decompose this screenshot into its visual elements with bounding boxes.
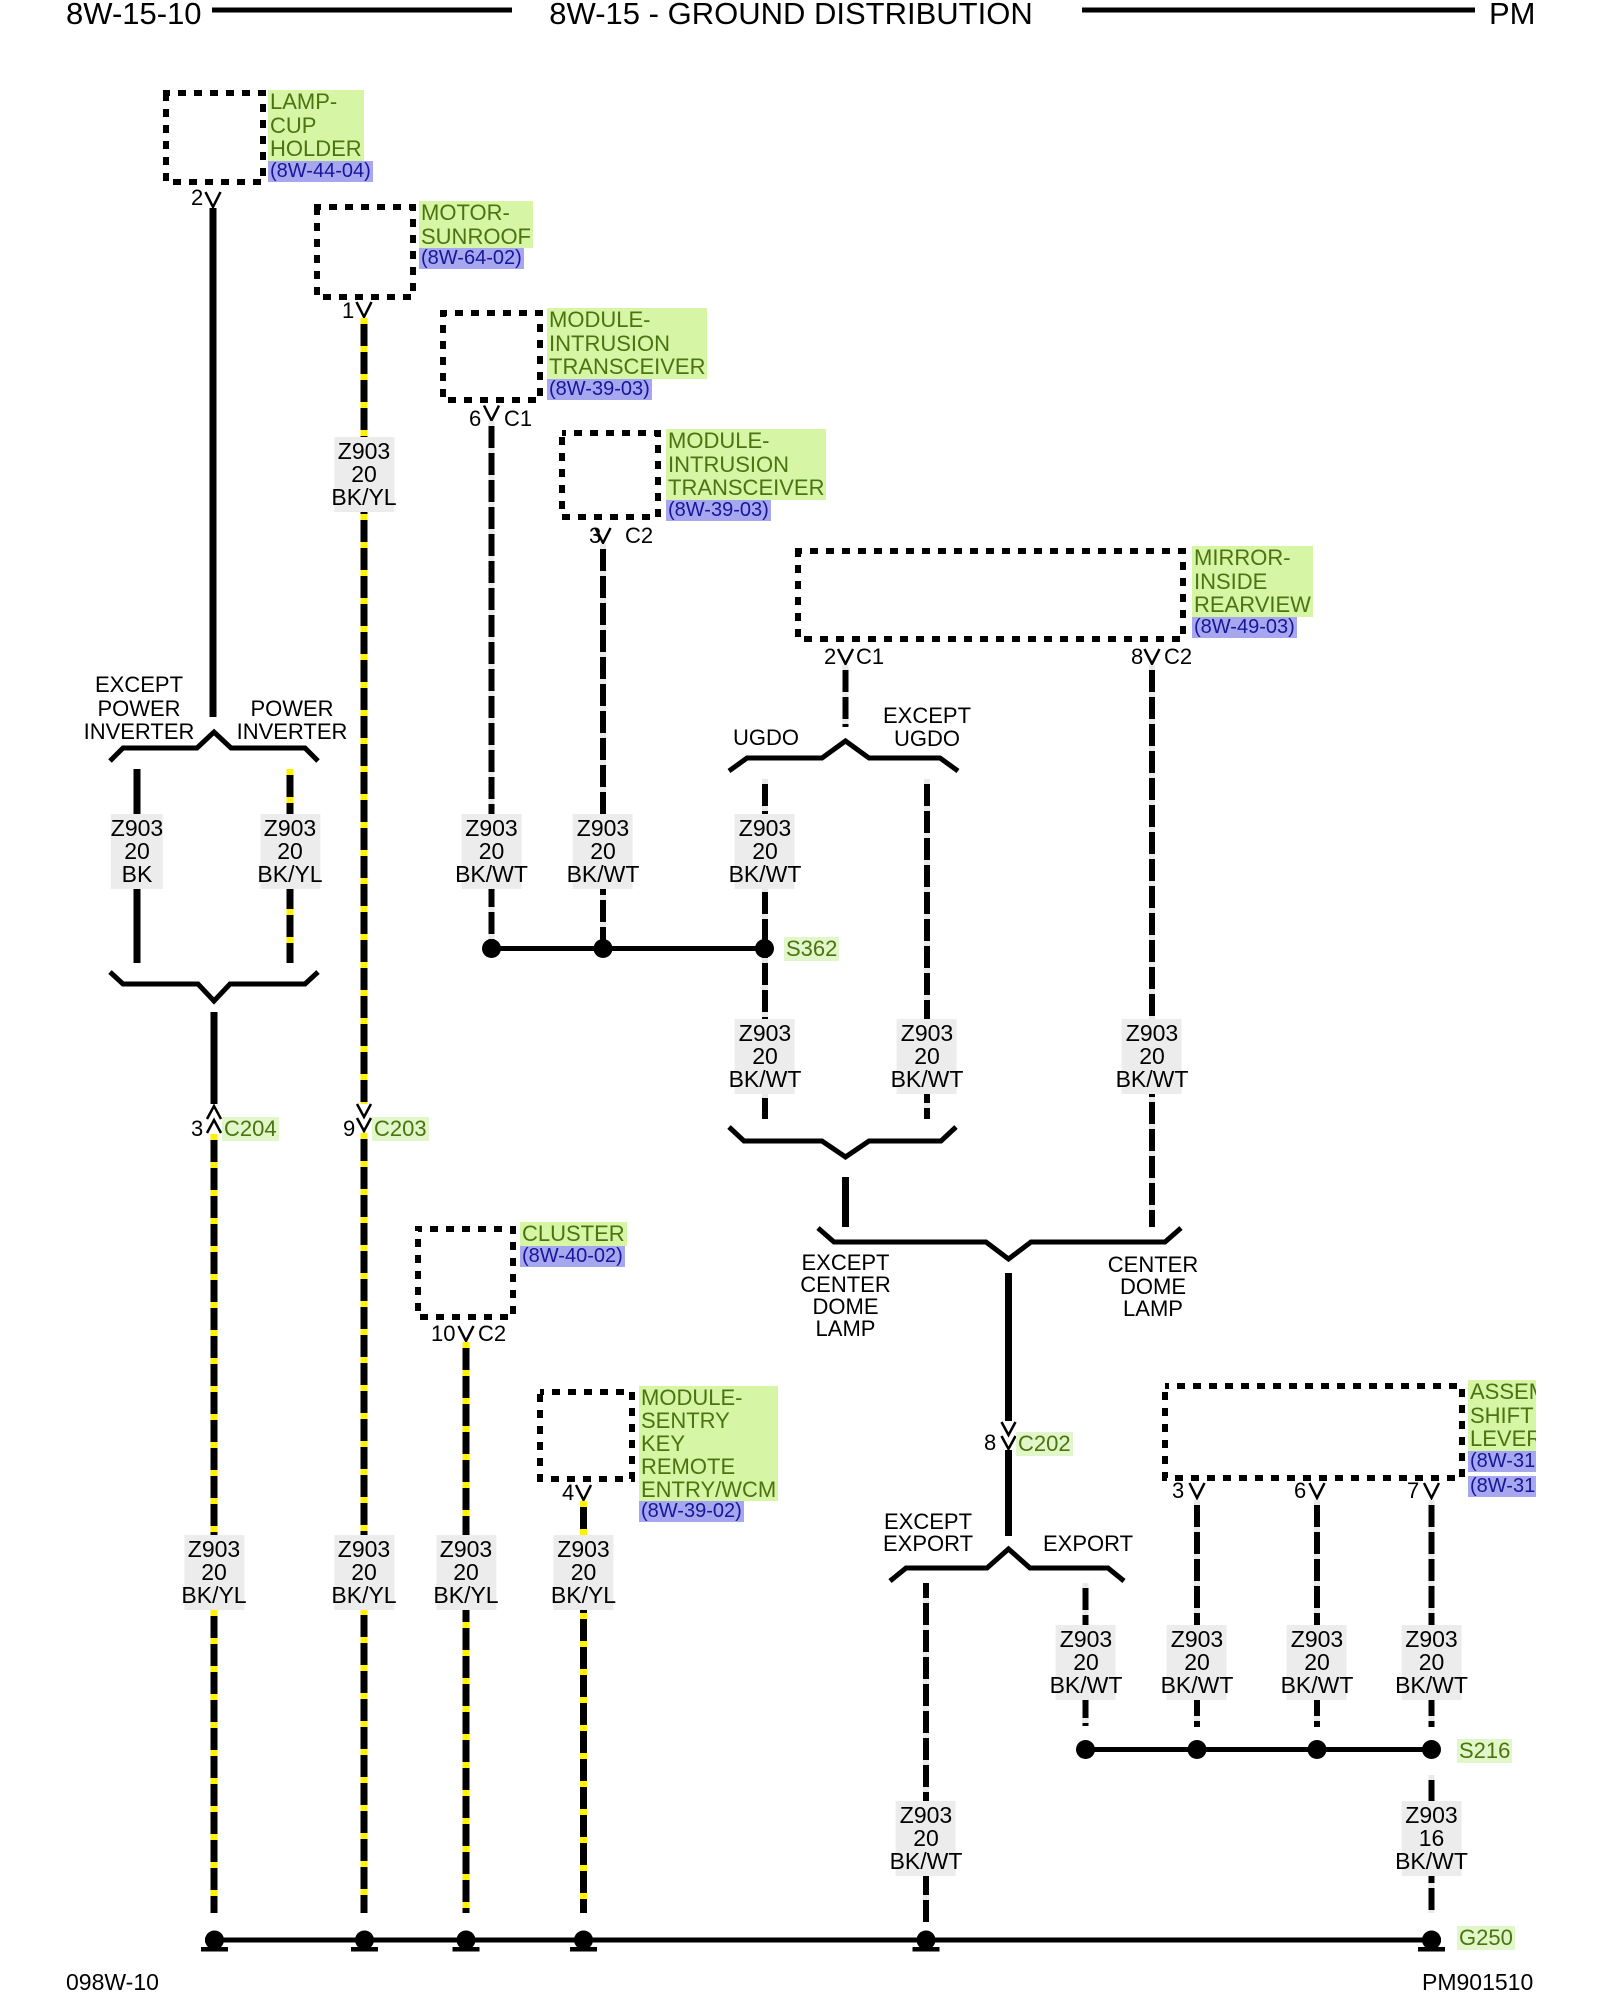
- connector box: motor-sunroof: [317, 207, 413, 297]
- header rule right: [1082, 8, 1475, 13]
- junction dot S216 pin6: [1308, 1740, 1327, 1759]
- wire label Z903 20 BK/WT row5 d: [1395, 1625, 1468, 1700]
- connector box: module-sentry key remote entry/wcm: [540, 1392, 632, 1479]
- pin number 9 at C203: [343, 1118, 355, 1140]
- connector label C204: [222, 1117, 279, 1141]
- wire Z903 20 BK/YL below C203 to G250: [361, 1133, 368, 1913]
- wire BK/WT mirror pin 8 down to dome-lamp merge: [1149, 665, 1155, 1227]
- junction dot S362 left: [482, 939, 501, 958]
- ground label G250: [1457, 1926, 1515, 1950]
- header rule left: [212, 8, 512, 13]
- connector box: cluster: [418, 1229, 513, 1317]
- pin number 2 (lamp): [191, 187, 203, 209]
- connector box: module-intrusion transceiver C2: [562, 433, 658, 517]
- text UGDO: [733, 727, 799, 749]
- wire label Z903 20 BK/YL row4 b: [331, 1535, 396, 1610]
- wire Z903 BK from lamp pin 2: [210, 208, 217, 717]
- pin number 3 and C2: [589, 525, 601, 547]
- pin number 2 and C1 (mirror): [824, 646, 836, 668]
- wire Z903 20 BK/YL from sunroof pin 1: [361, 318, 368, 1104]
- wire label Z903 20 BK/YL row1: [331, 437, 396, 512]
- wire Z903 20 BK/YL branch: [287, 769, 294, 963]
- label mirror-inside rearview: [1192, 546, 1313, 640]
- connector label C203: [372, 1117, 429, 1141]
- pin 8 chevron (mirror C2): [1145, 649, 1160, 664]
- pin number 3 at C204: [191, 1118, 203, 1140]
- wire Z903 16 BK/WT from S216 to G250: [1429, 1775, 1435, 1913]
- junction dot G250 x466: [453, 1931, 480, 1952]
- header PM: [1489, 0, 1536, 29]
- connector box: shift lever assembly: [1165, 1386, 1462, 1478]
- wire label Z903 20 BK/WT row5 a: [1050, 1625, 1123, 1700]
- pin number 3 (shift lever): [1172, 1480, 1184, 1502]
- wire label Z903 20 BK/YL row4 d: [551, 1535, 616, 1610]
- header title: [549, 0, 1032, 29]
- wire Z903 20 BK/WT from transceiver pin 6: [489, 421, 495, 946]
- pin 4 chevron (sentry module): [576, 1485, 591, 1500]
- connector C204 chevrons: [207, 1106, 221, 1133]
- text center dome lamp: [1108, 1254, 1198, 1320]
- wire BK/WT mirror pin 2 to UGDO brace: [843, 665, 849, 727]
- pin 3 chevron (shift lever): [1190, 1483, 1205, 1498]
- wire label Z903 20 BK/WT row2 b: [567, 814, 640, 889]
- pin 3 chevron (transceiver C2): [596, 528, 611, 543]
- wire label Z903 20 BK/WT row3 b: [891, 1019, 964, 1094]
- wire Z903 20 BK/YL from cluster to G250: [463, 1342, 470, 1913]
- connector box: lamp-cup holder: [166, 93, 263, 182]
- brace merge UGDO branches: [729, 1127, 956, 1157]
- pin 10 chevron (cluster C2): [459, 1326, 474, 1341]
- splice S362 bus: [489, 946, 767, 951]
- label shift lever assembly (clipped at page edge): [1468, 1380, 1536, 1498]
- junction dot G250 x214: [201, 1931, 228, 1952]
- pin number 8 at C202: [984, 1432, 996, 1454]
- connector label C202: [1016, 1432, 1073, 1456]
- wire Z903 20 BK/YL below C204 to G250: [211, 1134, 218, 1913]
- pin 2 chevron (mirror C1): [838, 649, 853, 664]
- junction dot G250 x583: [570, 1931, 597, 1952]
- connector C203 chevrons: [357, 1104, 371, 1131]
- label cluster: [520, 1222, 627, 1269]
- wire label Z903 20 BK/WT row2 a: [455, 814, 528, 889]
- wire label Z903 20 BK/YL row2: [257, 814, 322, 889]
- wire label Z903 20 BK/WT row6: [890, 1801, 963, 1876]
- junction dot S362 middle: [594, 939, 613, 958]
- wire label Z903 20 BK/WT row3 c: [1116, 1019, 1189, 1094]
- wire Z903 20 BK/YL from sentry module to G250: [580, 1501, 587, 1913]
- brace merge dome lamp branches: [818, 1228, 1181, 1259]
- wire label Z903 20 BK/WT row2 c: [729, 814, 802, 889]
- footer code PM901510: [1422, 1971, 1533, 1993]
- junction dot S216 pin3: [1188, 1740, 1207, 1759]
- wire label Z903 20 BK: [111, 814, 163, 889]
- wire BK merged to connector C202: [1005, 1273, 1012, 1421]
- text power inverter: [237, 697, 348, 744]
- junction dot S216 export: [1076, 1740, 1095, 1759]
- pin number 6 and C1: [469, 408, 481, 430]
- wire label Z903 20 BK/WT row3 a: [729, 1019, 802, 1094]
- brace split UGDO / EXCEPT UGDO: [729, 741, 958, 771]
- pin number 10 and C2 (cluster): [431, 1323, 455, 1345]
- wire label Z903 20 BK/YL row4 c: [433, 1535, 498, 1610]
- wire BK/WT UGDO branch to S362: [762, 779, 768, 946]
- wire Z903 20 BK/WT except-export branch to G250: [923, 1583, 929, 1922]
- connector box: mirror-inside rearview: [798, 551, 1183, 639]
- label lamp-cup holder: [268, 90, 373, 184]
- footer sheet number: [66, 1971, 159, 1993]
- text except power inverter: [84, 673, 195, 744]
- text export: [1043, 1533, 1133, 1555]
- splice S216 bus: [1083, 1747, 1437, 1752]
- pin number 1 (sunroof): [342, 300, 354, 322]
- wire BK to connector C204: [211, 1012, 218, 1104]
- wire Z903 20 BK/WT shift pin 3 to S216: [1194, 1500, 1200, 1727]
- pin 1 chevron (motor-sunroof): [357, 302, 372, 317]
- wire BK/WT from S362 down: [762, 953, 768, 1119]
- pin number 7 (shift lever): [1407, 1480, 1419, 1502]
- pin number 8 and C2 (mirror): [1131, 646, 1143, 668]
- pin 2 chevron (lamp-cup holder): [206, 192, 221, 207]
- connector box: module-intrusion transceiver C1: [443, 313, 540, 400]
- wire BK/WT EXCEPT UGDO branch: [924, 779, 930, 1119]
- connector C202 chevrons: [1002, 1422, 1016, 1449]
- wire Z903 20 BK/WT shift pin 6 to S216: [1314, 1500, 1320, 1727]
- junction dot S362 right: [755, 939, 774, 958]
- wire BK below C202 to export split: [1005, 1450, 1012, 1536]
- splice label S362: [784, 937, 839, 961]
- label module-intrusion transceiver C2: [666, 429, 826, 523]
- wire BK merged below UGDO merge: [842, 1177, 849, 1227]
- pin number 4 (sentry): [562, 1482, 574, 1504]
- wire label Z903 20 BK/YL row4 a: [181, 1535, 246, 1610]
- pin 6 chevron (shift lever): [1310, 1483, 1325, 1498]
- text except UGDO: [883, 704, 971, 750]
- label module-sentry key remote entry/wcm: [639, 1386, 778, 1524]
- header page number: [66, 0, 202, 29]
- pin number 6 (shift lever): [1294, 1480, 1306, 1502]
- junction dot G250 x926: [913, 1931, 940, 1952]
- wire Z903 20 BK/WT from transceiver pin 3: [600, 544, 606, 946]
- text except center dome lamp: [800, 1252, 890, 1340]
- brace split EXCEPT EXPORT / EXPORT: [890, 1549, 1124, 1581]
- wire label Z903 20 BK/WT row5 b: [1161, 1625, 1234, 1700]
- text except export: [883, 1511, 973, 1555]
- brace merge power inverter branches: [110, 972, 318, 1001]
- wire Z903 20 BK branch: [134, 769, 141, 963]
- ground G250 bus: [205, 1938, 1441, 1943]
- junction dot G250 x1431: [1418, 1931, 1445, 1952]
- splice label S216: [1457, 1739, 1512, 1763]
- junction dot S216 pin7: [1422, 1740, 1441, 1759]
- label motor-sunroof: [419, 201, 533, 272]
- pin 6 chevron (transceiver C1): [484, 406, 499, 421]
- junction dot G250 x364: [351, 1931, 378, 1952]
- wire Z903 20 BK/WT shift pin 7 to S216: [1429, 1500, 1435, 1727]
- pin 7 chevron (shift lever): [1424, 1483, 1439, 1498]
- wire Z903 20 BK/WT export branch to S216: [1083, 1583, 1089, 1726]
- wire label Z903 16 BK/WT row6: [1395, 1801, 1468, 1876]
- wire label Z903 20 BK/WT row5 c: [1281, 1625, 1354, 1700]
- label module-intrusion transceiver C1: [547, 308, 707, 402]
- brace split EXCEPT POWER INVERTER / POWER INVERTER: [110, 732, 318, 761]
